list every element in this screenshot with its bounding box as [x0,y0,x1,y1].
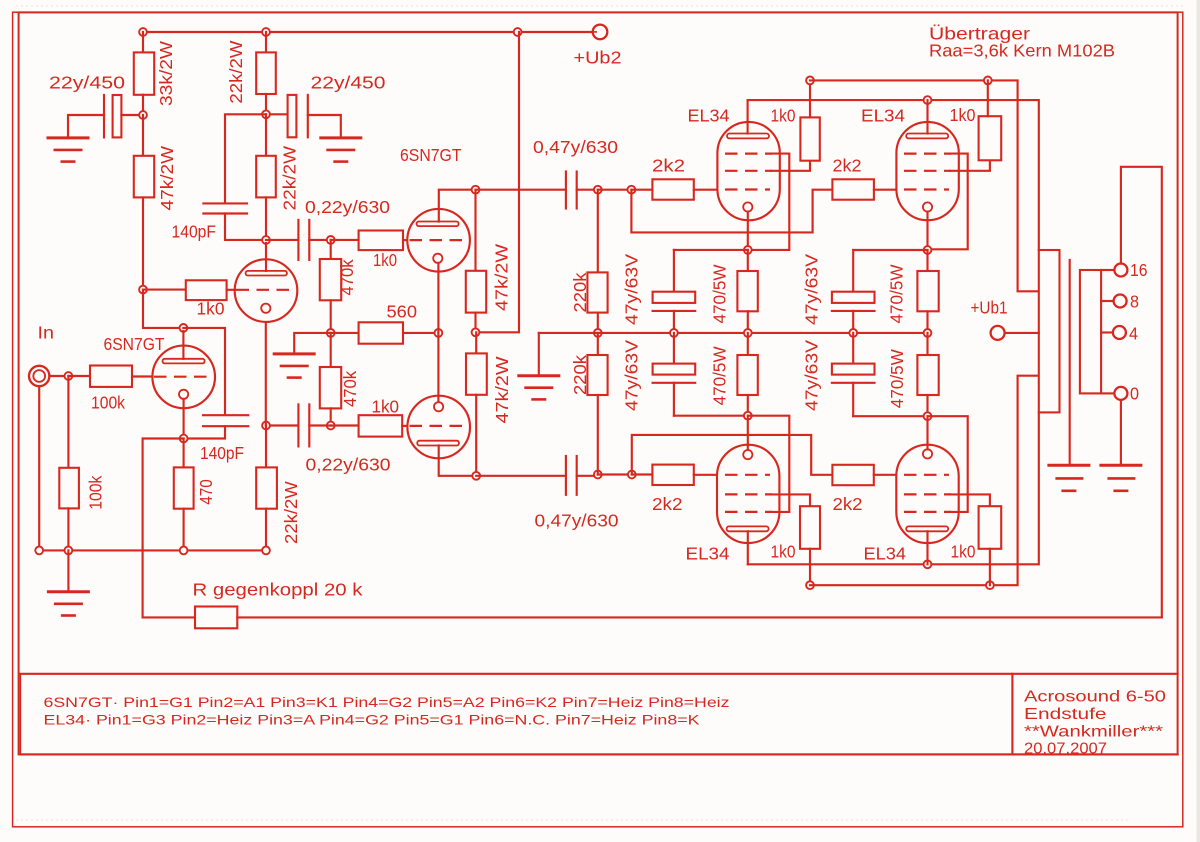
EL34 no4 cathode circle [923,449,932,458]
node lower screen rail no3 [806,581,814,589]
wire cathode node to feedback corner [143,439,184,618]
resistor 470/5W no1 upper [747,250,749,271]
svg-text:+Ub2: +Ub2 [574,48,622,68]
resistor 470k upper [330,240,332,259]
svg-text:1k0: 1k0 [771,106,796,126]
tube 6SN7GT V2b envelope [407,396,470,459]
svg-text:2k2: 2k2 [833,156,862,176]
svg-text:2k2: 2k2 [652,494,683,514]
faint top perforation line [16,5,1184,7]
resistor 470/5W no3 lower [747,333,749,355]
EL34 no4 cathode lead [926,416,928,449]
EL34 no1 g2 dashed row [725,170,772,172]
wire chain down to corner [143,290,183,328]
V2a cathode circle [433,254,442,263]
EL34 no2 g2 dashed row [904,170,951,172]
node lower screen rail no4 [986,581,994,589]
svg-text:8: 8 [1130,292,1139,312]
svg-text:470k: 470k [337,259,357,295]
svg-text:EL34: EL34 [864,544,907,564]
ground G4 [273,352,316,355]
wire cap to node [309,239,330,241]
V1b cathode lead down [265,313,267,426]
svg-text:0,22y/630: 0,22y/630 [306,455,391,475]
EL34 no2 g3 tie to cathode [928,154,968,250]
terminal 8 circle [1114,295,1127,308]
resistor 22k/2W lower of second chain [265,114,267,156]
capacitor 47y/63V no3 : top lead [852,250,854,292]
terminal 4 circle [1113,326,1126,339]
wire mid node to ground [294,333,331,354]
top supply rail wire [143,31,593,33]
node rail cap no3 [849,329,857,337]
+Ub2 terminal circle [593,25,608,40]
svg-text:140pF: 140pF [200,443,244,463]
wire cap to node [121,114,139,116]
capacitor 22y/450 left : box plate [113,95,122,137]
resistor 1k0 V1b grid [143,289,186,291]
svg-text:EL34· Pin1=G3 Pin2=Heiz Pin3=A: EL34· Pin1=G3 Pin2=Heiz Pin3=A Pin4=G2 P… [44,712,701,728]
node lower drive [327,422,335,430]
svg-text:6SN7GT: 6SN7GT [104,334,165,354]
wire cap to 220k node [577,189,598,191]
EL34 no4 g2 lead to 1k0 [950,494,990,506]
wire cap to ground [308,115,341,138]
ground G5 lead [67,550,69,591]
EL34 no1 g3 dashed row [725,153,772,155]
svg-text:33k/2W: 33k/2W [156,40,176,106]
secondary tap 0 stub [1101,392,1114,394]
svg-text:470: 470 [196,479,216,505]
node screen rail no2 [984,77,992,85]
node rail cap no1 [670,329,678,337]
EL34 no3 plate bar [727,526,769,531]
resistor 1k0 grid V2b [331,424,359,426]
V1a grid dashed [154,376,213,378]
node upper drive [327,236,335,244]
terminal 0 circle [1114,387,1127,400]
resistor 47k/2W input stage [142,115,144,156]
capacitor 47y/63V no1 : top lead [673,250,675,292]
wire 1k0 to V2a grid [403,239,409,241]
V2b grid dashed [410,425,469,427]
capacitor 0,47y/630 lower : plates [565,456,567,495]
svg-text:EL34: EL34 [861,106,905,126]
svg-text:220k: 220k [570,355,590,395]
lower anode rail [748,412,1039,564]
node 220k bottom [594,471,602,479]
svg-text:1k0: 1k0 [950,105,976,125]
EL34 no1 cathode lead [747,212,749,250]
wire to parallel grid node lower [598,473,632,475]
mid bias rail [539,332,928,334]
grey page right edge [1197,0,1200,842]
upper screen rail [810,80,1039,291]
node V1a cathode [180,435,188,443]
wire cap to lower drive node [309,424,330,426]
capacitor 0,22y/630 upper : plates [297,220,299,260]
V1a plate bar [163,359,205,364]
capacitor 22y/450 right : line plate [307,95,309,137]
capacitor 47y/63V no4 lower [852,333,854,364]
wire 22k down to V1b plate node [265,197,267,240]
wire cap to 220k lower node [577,475,598,477]
svg-text:47y/63V: 47y/63V [802,254,822,325]
EL34 no2 g1 dashed row [904,188,949,190]
svg-text:22y/450: 22y/450 [49,73,125,93]
svg-text:47k/2W: 47k/2W [157,145,177,210]
wire to node [265,94,267,114]
EL34 no3 g1 dashed row [725,474,770,476]
svg-text:1k0: 1k0 [771,542,796,562]
svg-text:2k2: 2k2 [833,494,863,514]
capacitor 47y/63V no1 : line plate [653,310,696,312]
node V1b plate [262,236,270,244]
ground G1 [47,136,90,139]
ground G5 [47,590,90,593]
terminal 16 circle [1114,264,1127,277]
lower drive wire to coupling cap [476,475,566,477]
V2b plate bar [417,441,459,446]
transformer secondary winding box [1080,270,1101,393]
svg-text:470/5W: 470/5W [887,264,907,323]
EL34 no3 g3 dashed row [725,511,772,513]
EL34 no2 plate bar [906,134,948,139]
node on top rail above 22k chain [262,28,270,36]
wire to parallel grid node [598,189,632,191]
resistor 2k2 grid EL34 no3 [632,473,653,475]
resistor 22k/2W cathodyne lower [265,426,267,468]
svg-text:140pF: 140pF [172,222,217,242]
resistor 2k2 grid EL34 no1 [631,189,652,191]
svg-text:470/5W: 470/5W [887,349,907,408]
node screen rail no1 [806,77,814,85]
resistor 100k series [68,375,90,377]
pin info box bottom line [20,753,1177,755]
wire cap to ground [68,115,104,138]
terminal 0 ground lead [1120,400,1122,465]
EL34 no4 g3 tie to cathode [928,416,968,512]
V1b cathode circle [261,304,270,313]
svg-text:Endstufe: Endstufe [1024,706,1107,723]
node cathode EL34 no3 [744,412,752,420]
node input [65,372,73,380]
wire 1k0 to lower screen rail [809,549,811,585]
cathode wire no1 to bypass cap [674,249,748,251]
+Ub1 wire to center tap [1005,332,1039,334]
EL34 no4 g1 dashed row [904,474,949,476]
V2b cathode lead [437,333,439,402]
V2b cathode circle [434,402,443,411]
wire jack to node [49,375,68,377]
tube EL34 no3 envelope [717,445,779,543]
140pF lower bottom lead [184,426,225,438]
EL34 no2 g2 lead to 1k0 [950,160,990,171]
svg-text:22y/450: 22y/450 [311,73,386,93]
svg-text:1k0: 1k0 [372,397,400,417]
transformer core line [1069,260,1071,465]
resistor 470 cathode [183,439,185,468]
wire 470k lower to node [330,408,332,425]
svg-text:560: 560 [387,302,418,322]
EL34 no1 g1 dashed row [725,188,770,190]
ground G2 [319,136,362,139]
svg-text:22k/2W: 22k/2W [280,145,300,210]
tube EL34 no4 envelope [896,445,958,543]
svg-text:22k/2W: 22k/2W [226,40,246,104]
140pF upper bottom lead [225,214,266,240]
tube 6SN7GT V1a envelope [152,346,215,409]
node cathode EL34 no4 [924,412,932,420]
svg-text:4: 4 [1129,324,1138,344]
svg-text:+Ub1: +Ub1 [971,298,1008,318]
node rail 220k [594,329,602,337]
node grid branch upper [628,186,636,194]
V1a cathode circle [179,390,188,399]
capacitor 47y/63V no1 : box plate [653,292,696,303]
tube EL34 no1 envelope [717,122,779,220]
V1b plate wire to coupling cap [266,239,298,241]
feedback wire to output [237,616,1162,618]
EL34 no3 cathode circle [743,450,752,459]
wire 1k0 to lower screen rail [989,549,991,585]
node 47k loads junction [472,328,480,336]
V1b plate bar [246,271,287,276]
EL34 no2 plate lead [926,100,928,133]
capacitor 22y/450 right : box plate [270,113,288,115]
EL34 no3 g2 lead to 1k0 [771,494,810,506]
svg-text:470/5W: 470/5W [710,264,730,323]
node V2b plate drive [472,472,480,480]
EL34 no1 plate lead [747,100,749,133]
svg-text:470k: 470k [340,371,360,407]
wire 470k to mid node [330,300,332,333]
resistor 470/5W no2 upper [926,250,928,271]
EL34 no4 g2 dashed row [904,493,951,495]
EL34 no1 plate bar [727,134,769,139]
EL34 no3 g2 dashed row [725,493,772,495]
faint bottom perforation line [16,819,1130,821]
lower cathode wire no3 [674,415,748,417]
resistor 1k0 grid V2a [331,239,359,241]
V2a cathode lead [437,263,439,333]
resistor 47k/2W V2b load [475,332,477,353]
node divider mid [327,329,335,337]
svg-text:1k0: 1k0 [197,299,225,319]
node anode rail no2 [924,96,932,104]
+Ub1 terminal circle [991,326,1005,340]
svg-text:47y/63V: 47y/63V [802,340,822,411]
jack sleeve drop [38,386,40,550]
svg-text:47k/2W: 47k/2W [492,356,512,424]
capacitor 0,47y/630 upper : plates [565,172,567,209]
140pF upper top lead [224,116,226,203]
wire V1b cathode node to cap [266,424,298,426]
V1a cathode lead [183,399,185,439]
V2b plate lead down to lower drive wire [439,446,477,476]
branch wire to EL34 no2 grid resistor [631,190,832,233]
EL34 no3 cathode lead [747,416,749,450]
tube 6SN7GT V2a envelope [407,209,470,272]
wire 2k2 to EL34 no1 grid [694,189,723,191]
resistor 1k0 screen EL34 no3 [800,506,820,549]
pin info box top line [20,673,1177,675]
resistor 1k0 screen EL34 no1 [800,117,819,160]
svg-text:0: 0 [1130,384,1139,404]
svg-text:16: 16 [1130,260,1148,280]
transformer primary winding box [1039,250,1060,412]
node V1a plate chain / 1k0 tap [139,286,147,294]
lower cathode wire no4 [853,415,927,417]
svg-text:100k: 100k [86,475,106,509]
EL34 no2 g3 dashed row [904,153,951,155]
secondary tap 16 stub [1101,269,1114,271]
lower screen rail [810,376,1039,586]
node rail res no1 [744,329,752,337]
svg-text:47k/2W: 47k/2W [492,243,512,311]
V2a grid dashed [410,239,469,241]
V1b grid dashed [237,289,296,291]
resistor 1k0 screen EL34 no4 [979,506,1002,549]
EL34 no4 plate lead [926,531,928,564]
node rail res no2 [924,329,932,337]
resistor 220k upper [597,190,599,273]
svg-text:47y/63V: 47y/63V [622,254,642,325]
input jack inner [33,370,45,382]
capacitor 140pF lower : plates [203,414,248,416]
resistor 22k/2W upper of second chain [265,32,267,52]
svg-text:0,47y/630: 0,47y/630 [533,137,618,157]
EL34 no1 cathode circle [743,202,752,211]
wire 100k to V1a grid [132,375,153,377]
input jack outer [29,366,49,386]
V1b plate lead [265,243,267,271]
wire plate node to 140pF2 top lead [183,328,225,414]
svg-text:22k/2W: 22k/2W [281,481,301,544]
node V2 cathodes [435,329,443,337]
wire 33k to node [142,95,144,115]
EL34 no1 g3 tie to cathode [748,154,789,250]
B+ dropper ground G6 lead [538,333,540,376]
ground G6 [517,374,560,377]
svg-text:1k0: 1k0 [373,250,397,270]
svg-text:20.07.2007: 20.07.2007 [1024,741,1107,758]
svg-text:2k2: 2k2 [652,156,685,176]
resistor R gegenkoppl 20k [143,616,195,618]
node 22k chain mid [262,110,270,118]
node grid branch lower [628,471,636,479]
branch wire to EL34 no4 grid resistor [632,435,833,475]
svg-text:Raa=3,6k Kern M102B: Raa=3,6k Kern M102B [929,41,1115,61]
svg-text:In: In [38,323,55,343]
resistor 33k/2W [142,32,144,52]
wire 47k to B+ corner [476,32,520,332]
upper drive wire to coupling cap [476,189,566,191]
svg-text:6SN7GT: 6SN7GT [400,145,462,165]
capacitor 22y/450 left : line plate [103,95,105,137]
resistor 100k shunt [67,376,69,468]
tube 6SN7GT V1b envelope [235,259,298,322]
EL34 no2 cathode lead [926,212,928,250]
EL34 no4 plate bar [906,526,948,531]
node V2a plate drive [472,186,480,194]
capacitor 0,22y/630 lower : plates [297,404,299,446]
V2a plate lead up to drive wire [439,190,476,222]
node jack sleeve [35,547,43,555]
pin info box left edge [19,674,21,755]
secondary tap 4 stub [1101,331,1113,333]
wire 1k0 to screen node [987,80,989,116]
EL34 no2 cathode circle [923,202,932,211]
cathode wire no2 to bypass cap [853,249,927,251]
wire 22k to ground rail [265,509,267,551]
EL34 no4 g3 dashed row [904,511,951,513]
svg-text:EL34: EL34 [688,106,730,126]
node cathode EL34 no2 [924,246,932,254]
resistor 470/5W no4 lower [926,333,928,355]
svg-text:0,47y/630: 0,47y/630 [535,511,619,531]
svg-text:1k0: 1k0 [951,542,976,562]
resistor 560 [331,332,359,334]
svg-text:220k: 220k [570,272,590,312]
svg-text:100k: 100k [91,393,125,413]
node V1b cathode drive [262,422,270,430]
svg-text:0,22y/630: 0,22y/630 [305,197,390,217]
svg-text:**Wankmiller***: **Wankmiller*** [1024,724,1163,741]
long anode chain wire down [142,197,144,289]
svg-text:EL34: EL34 [686,544,730,564]
wire 47k to lower drive node [475,395,477,476]
ground GA core [1047,464,1090,467]
resistor 47k/2W V2a load [474,190,476,271]
V1a plate lead [182,331,184,359]
tube EL34 no2 envelope [896,122,958,220]
svg-text:6SN7GT· Pin1=G1 Pin2=A1 Pin3=K: 6SN7GT· Pin1=G1 Pin2=A1 Pin3=K1 Pin4=G2 … [44,694,730,710]
upper anode rail [748,100,1039,250]
capacitor 47y/63V no2 lower [673,333,675,364]
capacitor 140pF upper : plates [203,202,247,204]
node V1a plate [180,324,188,332]
wire 1k0 to screen rail node [809,80,811,117]
wire 560 to cathode node [403,332,438,334]
ground bus wire [39,549,266,551]
node on top rail at B+ drop [514,28,522,36]
title box divider [1011,674,1013,755]
ground GB secondary [1099,464,1142,467]
node 100k shunt foot [65,547,73,555]
resistor 2k2 grid EL34 no4 [832,465,873,485]
secondary tap 8 stub [1101,300,1113,302]
node 220k top [594,186,602,194]
resistor 220k lower [597,333,599,355]
node 33k/47k/cap junction [139,111,147,119]
V2a plate bar [417,222,459,227]
wire node to 140pF top lead [225,113,266,115]
resistor 1k0 screen EL34 no2 [979,116,1002,160]
feedback takeoff from 16 tap [1121,167,1162,618]
node cathode EL34 no1 [744,246,752,254]
resistor 2k2 grid EL34 no2 [832,179,874,199]
svg-text:Acrosound 6-50: Acrosound 6-50 [1024,689,1166,706]
resistor 470k lower [330,333,332,367]
EL34 no3 plate lead [747,531,749,564]
svg-text:47y/63V: 47y/63V [622,340,642,411]
node on top rail above 33k [139,28,147,36]
node lower anode rail no4 [924,560,932,568]
svg-text:R gegenkoppl 20 k: R gegenkoppl 20 k [193,580,363,600]
EL34 no1 g2 lead to 1k0 [771,161,810,171]
node 470 foot [180,547,188,555]
